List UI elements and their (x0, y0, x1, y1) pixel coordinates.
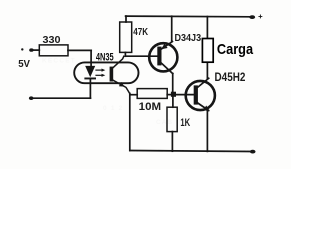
phototransistor collector lead up to base node (113, 56, 124, 67)
wire: R3 right to node A (167, 94, 170, 96)
svg-text:47K: 47K (133, 27, 148, 38)
node A junction dot (171, 92, 176, 97)
faint scan ghosts (42, 58, 173, 127)
label: 330 value (43, 35, 61, 46)
wire: Q1 collector down to node A (172, 74, 174, 94)
svg-text:4N35: 4N35 (96, 51, 114, 63)
wire: return wire to input terminal (31, 97, 90, 99)
transistor Q1 emitter (PNP arrow into bar) (161, 42, 172, 50)
wire: R2 bottom to base node (124, 52, 126, 56)
label: D34J3 (175, 33, 202, 44)
label: 4N35 (96, 51, 114, 63)
transistor Q1 D34J3 body circle (149, 43, 177, 71)
svg-text:D45H2: D45H2 (215, 71, 246, 84)
transistor Q2 base bar (194, 85, 198, 104)
svg-text:KECCET: KECCET (42, 58, 76, 65)
wire: Q2 emitter down to ground rail (206, 110, 208, 151)
wire: opto emitter down to ground rail (129, 93, 131, 150)
terminal: 5V input positive dot (29, 48, 33, 51)
node: plus mark beside +V terminal (259, 15, 262, 18)
wire: R4 bottom to ground rail (171, 132, 173, 152)
label: Carga (217, 41, 254, 58)
phototransistor inside opto: base bar (110, 67, 114, 82)
resistor R1 330 body (39, 45, 68, 56)
optocoupler U1 4N35 package outline (74, 62, 138, 83)
wire: ground bottom rail (130, 151, 252, 152)
transistor Q1 collector (162, 63, 173, 73)
label: 5V (18, 59, 30, 70)
wire: node A down to R4 top (172, 97, 174, 107)
resistor R2 47K body (120, 22, 132, 52)
resistor R4 1K body (167, 107, 177, 131)
svg-text:CAB: CAB (156, 119, 173, 126)
node: small speck left of terminal (21, 48, 23, 50)
svg-text:Carga: Carga (217, 41, 254, 58)
wire: +V rail down to load top (206, 17, 208, 39)
resistor R3 10M body (137, 89, 167, 99)
transistor Q1 base bar (157, 47, 161, 66)
wire: node A to Q2 base (175, 94, 194, 96)
phototransistor emitter lead with arrow (113, 80, 130, 93)
svg-text:0 1 2: 0 1 2 (103, 105, 123, 112)
wire: +V top rail (126, 15, 252, 18)
transistor Q2 emitter (NPN arrow out) (198, 103, 210, 111)
wire: Q1 emitter up to +V rail (171, 16, 173, 41)
transistor Q2 D45H2 body circle (186, 81, 215, 110)
wire: rail corner down to R2 top (125, 16, 127, 22)
wire: node to Q1 base (125, 55, 157, 57)
wire: opto emitter to R3 left (130, 94, 137, 96)
svg-text:D34J3: D34J3 (175, 33, 202, 44)
node: +V terminal dot top right (249, 15, 255, 19)
svg-text:330: 330 (43, 35, 61, 46)
transistor Q2 collector (198, 78, 209, 87)
wire: LED cathode down (89, 79, 91, 98)
svg-text:10M: 10M (139, 101, 161, 113)
label: 10M value (139, 101, 161, 113)
load RL Carga box (crisp overlay) (202, 39, 213, 63)
wire: Q2 collector up to load (206, 62, 208, 78)
svg-text:5V: 5V (18, 59, 30, 70)
node: ground terminal dot bottom right (250, 150, 256, 154)
svg-text:1K: 1K (180, 117, 190, 129)
label: D45H2 (215, 71, 246, 84)
diode D1 LED inside opto (84, 66, 96, 80)
label: 47K value (133, 27, 148, 38)
label: 1K value (180, 117, 190, 129)
terminal: input return dot (29, 96, 34, 100)
light arrows inside opto (96, 69, 105, 77)
wire: terminal to R1 (31, 49, 39, 51)
wire: R1 right to LED anode, corner down (68, 50, 91, 66)
